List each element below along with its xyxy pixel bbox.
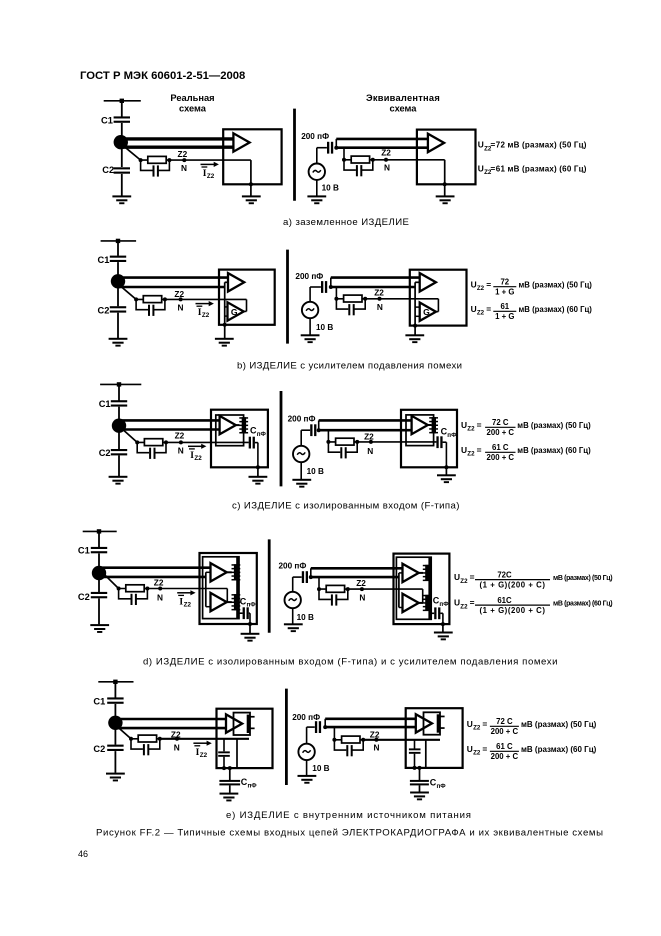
svg-text:10 В: 10 В <box>312 764 329 773</box>
capacitor 200 pF (fig c) <box>310 424 316 436</box>
fig a: antenna wire <box>104 100 141 102</box>
junction at capacitor output (fig b) <box>329 285 333 289</box>
label U_Z2 formula 2 (fig a) <box>478 163 496 176</box>
svg-text:10 В: 10 В <box>307 467 324 476</box>
internal capacitor (fig e right) <box>409 748 421 753</box>
label C_pF (fig d right) <box>433 596 450 608</box>
svg-text:U: U <box>471 304 477 314</box>
noise suppression amp (fig d left) <box>211 593 227 611</box>
svg-text:G: G <box>231 307 238 317</box>
wire <box>255 442 258 444</box>
ground (fig a left) <box>112 195 131 204</box>
wire <box>330 278 332 287</box>
node N (fig b right) <box>378 297 382 301</box>
junction on box bottom (fig b left) <box>223 323 227 327</box>
node: electrode (fig c) <box>112 419 126 433</box>
wire: down to C_pF (fig e right) <box>419 768 421 780</box>
svg-text:Z2: Z2 <box>381 148 391 158</box>
svg-text:=: = <box>482 744 487 754</box>
svg-text:мВ (размах) (60 Гц): мВ (размах) (60 Гц) <box>517 446 591 455</box>
wire <box>117 262 119 281</box>
wire: lower input lead (fig b right) <box>331 286 415 289</box>
impedance Z2 parallel RC (fig d right) <box>317 585 350 605</box>
svg-text:(1 + G)(200 + C): (1 + G)(200 + C) <box>480 606 546 615</box>
svg-text:Z2: Z2 <box>174 289 184 299</box>
ground of amplifier (fig c right) <box>437 474 456 483</box>
node N (fig c left) <box>179 440 183 444</box>
separator bar (fig d) <box>268 539 271 632</box>
capacitor C_pF (fig c left) <box>249 437 255 449</box>
svg-text:Z2: Z2 <box>356 578 366 588</box>
capacitor C1 (fig e) <box>107 697 123 703</box>
svg-text:200 пФ: 200 пФ <box>279 562 307 571</box>
label C_pF (fig e right) <box>430 778 447 790</box>
wire <box>306 760 308 775</box>
stub: lower amp output to coil <box>227 601 232 603</box>
impedance Z2 parallel RC (fig a left) <box>139 156 172 176</box>
svg-text:е) ИЗДЕЛИЕ с внутренним источ: е) ИЗДЕЛИЕ с внутренним источником питан… <box>226 810 472 821</box>
wire: down to box bottom (fig c right) <box>445 442 447 467</box>
svg-text:C1: C1 <box>98 255 110 265</box>
amplifier box (fig a left) <box>223 129 281 184</box>
junction on box bottom (fig d right) <box>441 622 445 626</box>
wire: upper input lead (fig d right) <box>311 567 403 570</box>
internal supply battery (fig e right) <box>424 712 445 734</box>
wire <box>414 326 416 335</box>
wire: upper input lead (fig d) <box>99 566 211 569</box>
svg-text:U: U <box>454 598 460 608</box>
svg-text:Z2: Z2 <box>364 432 374 442</box>
svg-text:61C: 61C <box>497 596 512 605</box>
label C_pF (fig c left) <box>250 426 267 438</box>
capacitor C1 (fig a) <box>114 116 130 122</box>
wire <box>317 147 327 149</box>
stub to lower amp input <box>206 606 211 608</box>
svg-text:(1 + G)(200 + C): (1 + G)(200 + C) <box>480 581 546 590</box>
impedance Z2 parallel RC (fig c right) <box>326 438 359 458</box>
svg-text:=: = <box>470 572 475 582</box>
wire <box>98 573 100 592</box>
fraction 72C/(200+C) <box>485 418 515 437</box>
wire: lower input lead (fig c right) <box>319 429 412 432</box>
wire: upper input lead (fig c right) <box>319 419 412 422</box>
wire <box>316 148 318 164</box>
internal supply battery (fig e left) <box>234 713 255 735</box>
wire <box>249 624 251 633</box>
ground of amplifier (fig d right) <box>434 632 453 641</box>
isolation coil upper (fig d right) <box>423 565 432 581</box>
svg-text:Z2: Z2 <box>207 173 215 180</box>
capacitor C1 (fig d) <box>91 547 107 553</box>
junction on box bottom (fig c left) <box>256 465 260 469</box>
svg-text:200 пФ: 200 пФ <box>301 132 329 141</box>
svg-text:мВ (размах) (50 Гц): мВ (размах) (50 Гц) <box>521 720 597 729</box>
isolation coil (fig c left) <box>239 417 248 433</box>
svg-text:200 пФ: 200 пФ <box>288 414 316 423</box>
fraction 72C/(200+C) <box>490 717 519 736</box>
wire: down to box bottom (fig c left) <box>257 443 259 468</box>
svg-text:U: U <box>461 445 467 455</box>
ground of amplifier (fig c left) <box>249 476 268 485</box>
label U_Z2 formula 1 (fig d) <box>454 572 475 585</box>
fig d: antenna wire <box>83 530 117 532</box>
wire <box>118 407 120 426</box>
impedance Z2 parallel RC (fig b right) <box>334 295 367 315</box>
wire <box>292 608 294 623</box>
svg-text:72: 72 <box>500 277 509 286</box>
wire <box>118 426 120 449</box>
fig c: junction on antenna wire <box>117 382 121 386</box>
wire: lower input lead (fig c) <box>119 428 220 431</box>
svg-text:=: = <box>477 420 482 430</box>
isolation box (fig d right) <box>396 557 431 619</box>
amplifier box (fig e right) <box>406 708 463 768</box>
ground below C_pF (fig e left) <box>220 793 239 802</box>
capacitor C_pF (fig e left) <box>219 780 240 786</box>
svg-text:C2: C2 <box>93 744 105 754</box>
capacitor 200 pF (fig a) <box>327 142 333 154</box>
amplifier box (fig b left) <box>219 270 275 325</box>
wire <box>443 441 447 443</box>
svg-text:200 + C: 200 + C <box>491 727 519 736</box>
wire: diagonal to Z2 <box>101 571 119 588</box>
svg-text:U: U <box>478 163 484 173</box>
ground (fig c left) <box>109 476 128 485</box>
wire <box>300 430 302 446</box>
wire <box>229 785 231 792</box>
svg-text:=: = <box>477 445 482 455</box>
wire <box>300 462 302 479</box>
svg-text:200 + C: 200 + C <box>487 453 515 462</box>
svg-text:Эквивалентная: Эквивалентная <box>366 93 440 103</box>
svg-text:Z2: Z2 <box>200 752 208 759</box>
svg-text:Z2: Z2 <box>477 285 485 292</box>
svg-text:Z2: Z2 <box>370 730 380 740</box>
capacitor C2 (fig b) <box>110 306 126 312</box>
junction on box bottom right (fig e left) <box>228 766 232 770</box>
ground of source (fig c) <box>292 479 311 488</box>
ground of source (fig d) <box>284 623 303 632</box>
wire <box>318 420 320 430</box>
svg-text:N: N <box>374 742 380 752</box>
stub to G amp upper input <box>415 306 420 308</box>
wire <box>250 184 252 195</box>
wire <box>121 174 123 196</box>
op-amp (fig c left) <box>220 416 236 434</box>
wire <box>98 598 100 624</box>
wire: common lead (fig b right) <box>414 282 416 325</box>
AC source 10 V (fig c) <box>293 446 309 462</box>
op-amp (fig b left) <box>228 273 244 291</box>
wire <box>118 456 120 477</box>
wire <box>293 576 302 578</box>
wire <box>445 467 447 474</box>
stub to G amp output <box>244 310 247 312</box>
svg-text:N: N <box>377 302 383 312</box>
wire <box>257 467 259 476</box>
AC source 10 V (fig b) <box>302 302 318 318</box>
wire <box>98 531 100 547</box>
svg-text:=: = <box>470 598 475 608</box>
svg-text:N: N <box>157 593 163 603</box>
wire: common lead (fig b left) <box>224 282 226 325</box>
wire: upper input lead (fig e right) <box>325 717 416 720</box>
svg-text:Z2: Z2 <box>477 310 485 317</box>
svg-text:с) ИЗДЕЛИЕ с изолированным вх: с) ИЗДЕЛИЕ с изолированным входом (F-тип… <box>232 500 460 511</box>
svg-text:U: U <box>461 420 467 430</box>
wire: upper input lead (fig e) <box>115 718 226 721</box>
wire: down to box bottom (fig e right) <box>425 740 427 768</box>
label C_pF (fig e left) <box>241 777 258 789</box>
svg-text:d) ИЗДЕЛИЕ с изолированным вх: d) ИЗДЕЛИЕ с изолированным входом (F-тип… <box>143 656 558 667</box>
svg-text:b) ИЗДЕЛИЕ с усилителем подав: b) ИЗДЕЛИЕ с усилителем подавления помех… <box>237 360 462 371</box>
wire: lower input lead (fig d right) <box>311 576 399 579</box>
wire <box>316 180 318 196</box>
node: electrode (fig b) <box>111 274 125 288</box>
stub to upper amp input <box>206 571 211 573</box>
wire: feedback drop (fig b right) <box>437 299 439 312</box>
op-amp (fig a left) <box>233 133 249 151</box>
wire: down to Z2 (fig c right) <box>327 430 329 442</box>
svg-text:Z2: Z2 <box>175 431 185 441</box>
svg-text:мВ (размах) (60 Гц): мВ (размах) (60 Гц) <box>519 305 593 314</box>
wire: internal return (fig a left) <box>250 160 252 184</box>
svg-text:ГОСТ Р МЭК 60601-2-51—2008: ГОСТ Р МЭК 60601-2-51—2008 <box>80 70 245 82</box>
wire: upper input lead (fig a right) <box>336 138 428 141</box>
ground of amplifier (fig d left) <box>241 633 260 642</box>
svg-text:пФ: пФ <box>447 432 457 439</box>
wire <box>114 723 116 745</box>
fraction 61C/(200+C) <box>485 443 515 462</box>
stub to G amp upper input <box>225 306 228 308</box>
wire: down to Z2 (fig e right) <box>333 727 335 740</box>
svg-text:Реальная: Реальная <box>170 93 214 103</box>
wire <box>292 577 294 592</box>
ground (fig e left) <box>106 773 125 782</box>
label U_Z2 formula 2 (fig e) <box>467 744 488 757</box>
wire: upper input lead (fig b) <box>118 276 228 279</box>
current arrow I_Z2 (fig c) <box>188 444 206 462</box>
wire <box>306 727 308 744</box>
amplifier box (fig c left) <box>211 410 268 468</box>
junction at capacitor output (fig c) <box>317 428 321 432</box>
isolation barrier bar (fig d right) <box>428 558 431 619</box>
impedance Z2 parallel RC (fig c left) <box>135 439 168 459</box>
wire: lower input lead (fig b) <box>118 286 225 289</box>
label U_Z2 formula 1 (fig c) <box>461 420 482 433</box>
wire: lower input lead (fig d) <box>99 576 206 579</box>
wire: N lead / feedback (fig d left) <box>147 588 227 590</box>
wire: lower input lead (fig e right) <box>325 726 416 729</box>
op-amp (fig e right) <box>416 714 432 732</box>
svg-text:=: = <box>486 279 491 289</box>
junction at capacitor output (fig e) <box>323 725 327 729</box>
svg-text:=: = <box>482 719 487 729</box>
op-amp (fig d right) <box>403 564 419 582</box>
capacitor C_pF (fig d left) <box>243 607 249 619</box>
wire: down to Z2 (fig a right) <box>343 148 345 160</box>
isolation coil lower (fig d right) <box>423 595 432 611</box>
svg-text:10 В: 10 В <box>322 184 339 193</box>
wire <box>307 726 315 728</box>
ground of amplifier (fig a right) <box>436 195 455 204</box>
svg-text:Z2: Z2 <box>184 601 192 608</box>
wire <box>121 142 123 167</box>
wire <box>114 704 116 723</box>
isolation box (fig c left) <box>216 415 244 446</box>
label U_Z2 formula 2 (fig c) <box>461 445 482 458</box>
svg-text:Z2: Z2 <box>460 604 468 611</box>
wire <box>121 123 123 142</box>
wire <box>414 754 416 768</box>
noise suppression amp G (fig b right) <box>420 303 436 321</box>
node N (fig d right) <box>360 587 364 591</box>
node: electrode (fig d) <box>92 566 106 580</box>
junction at capacitor output (fig a) <box>334 146 338 150</box>
svg-text:72 C: 72 C <box>496 717 513 726</box>
svg-text:C2: C2 <box>98 305 110 315</box>
AC source 10 V (fig a) <box>309 164 325 180</box>
svg-text:61: 61 <box>500 302 509 311</box>
svg-text:N: N <box>367 446 373 456</box>
wire: N lead into amplifier (fig c left) <box>166 441 249 443</box>
op-amp (fig d left) <box>211 563 227 581</box>
wire: lower input lead (fig e) <box>115 727 226 730</box>
wire <box>114 751 116 773</box>
wire: down to C_pF (fig e left) <box>229 768 231 780</box>
capacitor C2 (fig d) <box>91 592 107 598</box>
wire <box>442 624 444 632</box>
separator bar (fig e) <box>285 689 288 785</box>
svg-text:мВ (размах) (50 Гц): мВ (размах) (50 Гц) <box>517 421 591 430</box>
wire: upper input lead (fig c) <box>119 419 220 422</box>
wire <box>224 325 226 338</box>
svg-text:72 мВ (размах) (50 Гц): 72 мВ (размах) (50 Гц) <box>496 141 587 150</box>
node: electrode (fig a) <box>114 135 128 149</box>
wire <box>121 101 123 117</box>
ground of source (fig e) <box>298 775 317 784</box>
svg-text:пФ: пФ <box>248 782 258 789</box>
svg-text:10 В: 10 В <box>297 613 314 622</box>
wire <box>249 612 250 614</box>
wire <box>239 612 243 614</box>
svg-text:C1: C1 <box>78 545 90 555</box>
capacitor C2 (fig e) <box>107 745 123 751</box>
wire: feedback drop (fig d right) <box>422 589 424 603</box>
fraction 61C/(200+C) <box>490 742 519 761</box>
junction on box bottom right (fig e right) <box>418 766 422 770</box>
ground below C_pF (fig e right) <box>410 792 429 801</box>
capacitor C_pF (fig e right) <box>410 780 429 786</box>
svg-text:=: = <box>490 140 495 150</box>
ground of source (fig b) <box>301 334 320 343</box>
node N (fig e right) <box>374 738 378 742</box>
node N (fig a right) <box>384 158 388 162</box>
stub to G amp lower input <box>415 315 420 317</box>
impedance Z2 parallel RC (fig a right) <box>342 156 375 176</box>
node N (fig d left) <box>158 587 162 591</box>
impedance Z2 parallel RC (fig d left) <box>117 585 150 605</box>
wire <box>98 553 100 573</box>
impedance Z2 parallel RC (fig b left) <box>134 296 167 316</box>
wire: N lead / feedback (fig b left) <box>165 298 247 300</box>
svg-text:=: = <box>486 304 491 314</box>
fig e: antenna wire <box>98 681 133 683</box>
label U_Z2 formula 2 (fig b) <box>471 304 492 317</box>
amplifier box (fig c right) <box>401 410 457 468</box>
ground of source (fig a) <box>307 195 326 204</box>
svg-text:=: = <box>490 163 495 173</box>
wire: upper input lead (fig b right) <box>331 276 420 279</box>
svg-text:пФ: пФ <box>439 601 449 608</box>
capacitor 200 pF (fig b) <box>321 281 327 293</box>
isolation coil lower (fig d left) <box>232 594 241 610</box>
isolation box (fig d left) <box>203 557 239 619</box>
svg-text:Z2: Z2 <box>473 750 481 757</box>
svg-text:200 пФ: 200 пФ <box>295 272 323 281</box>
wire: down to Z2 (fig d right) <box>318 577 320 589</box>
svg-text:200 + C: 200 + C <box>487 428 515 437</box>
stub to lower amp input <box>399 607 403 609</box>
svg-text:C1: C1 <box>99 399 111 409</box>
svg-text:U: U <box>454 572 460 582</box>
amplifier box (fig e left) <box>217 709 273 768</box>
op-amp (fig a right) <box>428 134 444 152</box>
wire: internal return (fig a right) <box>444 160 446 185</box>
wire <box>444 184 446 195</box>
junction on box bottom left (fig e left) <box>222 766 226 770</box>
wire <box>114 682 116 698</box>
impedance Z2 parallel RC (fig e right) <box>332 736 365 756</box>
wire: N lead into amplifier (fig e left) <box>160 738 249 740</box>
junction on box bottom (fig d left) <box>248 622 252 626</box>
fig c: antenna wire <box>100 383 141 385</box>
svg-text:61 C: 61 C <box>496 742 513 751</box>
svg-text:Z2: Z2 <box>202 312 210 319</box>
svg-text:N: N <box>384 163 390 173</box>
svg-text:U: U <box>467 719 473 729</box>
node N (fig a left) <box>182 158 186 162</box>
svg-text:U: U <box>478 140 484 150</box>
svg-text:мВ (размах) (60 Гц): мВ (размах) (60 Гц) <box>553 601 612 608</box>
wire: feedback drop (fig d left) <box>226 589 228 603</box>
junction on box bottom (fig a right) <box>443 182 447 186</box>
svg-text:мВ (размах) (50 Гц): мВ (размах) (50 Гц) <box>519 280 593 289</box>
label U_Z2 formula 1 (fig b) <box>471 279 492 292</box>
svg-text:61 C: 61 C <box>492 443 509 452</box>
separator bar (fig a) <box>293 109 296 201</box>
svg-text:61 мВ (размах) (60 Гц): 61 мВ (размах) (60 Гц) <box>496 164 587 173</box>
stub to op-amp input <box>225 281 228 283</box>
amplifier box (fig a right) <box>417 130 476 185</box>
fraction 61/(1+G) <box>493 302 516 321</box>
svg-text:пФ: пФ <box>437 783 447 790</box>
svg-text:72C: 72C <box>497 570 512 579</box>
svg-text:пФ: пФ <box>257 431 267 438</box>
capacitor 200 pF (fig e) <box>315 721 321 733</box>
op-amp (fig b right) <box>420 273 436 291</box>
stub to upper amp input <box>399 572 403 574</box>
wire: N lead into amplifier (fig a left) <box>169 159 251 161</box>
wire: diagonal to Z2 <box>121 428 137 443</box>
svg-text:C2: C2 <box>78 592 90 602</box>
wire <box>309 318 311 334</box>
capacitor C1 (fig c) <box>111 400 127 406</box>
svg-text:Z2: Z2 <box>374 288 384 298</box>
amplifier box (fig b right) <box>410 270 467 326</box>
capacitor C2 (fig c) <box>111 449 127 455</box>
wire <box>117 281 119 306</box>
